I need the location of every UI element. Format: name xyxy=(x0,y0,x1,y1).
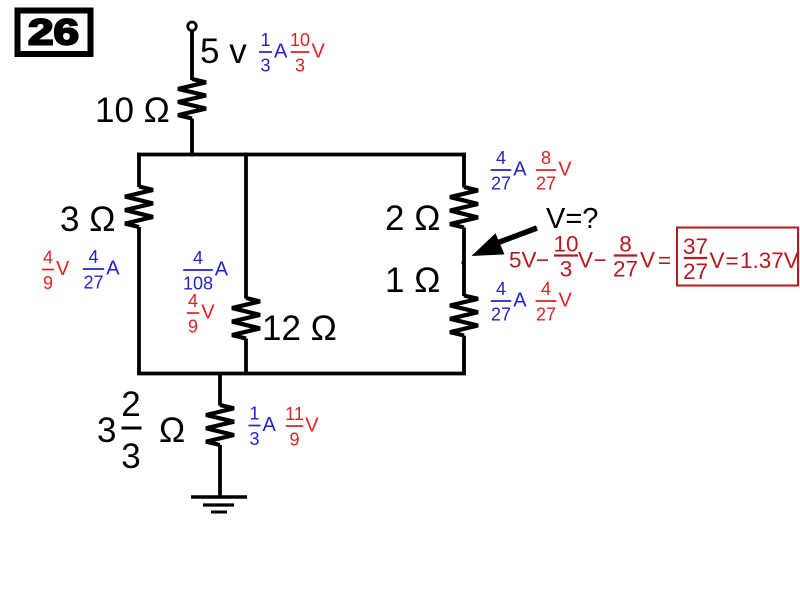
svg-text:Ω: Ω xyxy=(159,411,185,450)
svg-text:A: A xyxy=(513,290,527,312)
resistor 2 ohm xyxy=(450,187,478,228)
wire middle branch top xyxy=(244,153,248,299)
svg-text:A: A xyxy=(263,414,277,436)
svg-text:4: 4 xyxy=(188,291,198,311)
wire R to ground xyxy=(218,445,222,497)
wire right branch middle xyxy=(462,228,466,297)
resistor 12 ohm xyxy=(232,298,260,339)
svg-text:V=?: V=? xyxy=(546,203,598,235)
svg-text:10 Ω: 10 Ω xyxy=(95,91,170,130)
svg-text:2 Ω: 2 Ω xyxy=(385,199,440,238)
wire left branch top xyxy=(137,153,141,187)
svg-text:1: 1 xyxy=(260,30,270,50)
svg-text:4: 4 xyxy=(541,279,551,299)
svg-text:V: V xyxy=(559,290,573,312)
svg-text:A: A xyxy=(274,41,288,63)
svg-text:5V: 5V xyxy=(509,248,537,273)
annotation current 1/3 A (source) xyxy=(259,30,288,76)
svg-text:10: 10 xyxy=(290,30,310,50)
svg-text:4: 4 xyxy=(88,247,98,267)
annotation current 4/27 A (1 ohm) xyxy=(491,279,527,325)
annotation current 4/108 A (12 ohm) xyxy=(183,248,229,294)
wire bottom branch top xyxy=(218,373,222,406)
svg-text:=: = xyxy=(658,248,671,273)
terminal node (open circle) xyxy=(188,22,197,31)
annotation voltage 4/9 V (3 ohm) xyxy=(42,248,70,294)
wire right branch top xyxy=(462,153,466,188)
svg-text:V: V xyxy=(558,159,572,181)
resistor 10 ohm xyxy=(178,79,206,119)
svg-text:10: 10 xyxy=(553,232,578,257)
equation 5V - 10/3 V - 8/27 V = xyxy=(509,232,671,282)
svg-text:3: 3 xyxy=(260,56,270,76)
svg-text:V: V xyxy=(710,248,725,273)
arrow to node V xyxy=(472,228,538,256)
wire right branch bottom xyxy=(462,336,466,375)
wire middle branch bottom xyxy=(244,339,248,375)
svg-text:3: 3 xyxy=(97,411,116,450)
svg-text:V: V xyxy=(201,302,215,324)
svg-text:V: V xyxy=(56,258,70,280)
svg-text:1: 1 xyxy=(249,404,259,424)
wire terminal to R 10ohm xyxy=(190,31,194,80)
annotation voltage 11/9 V (3 2/3 ohm) xyxy=(285,404,319,450)
svg-text:3: 3 xyxy=(560,257,573,282)
svg-text:4: 4 xyxy=(496,148,506,168)
wire R10 to top bus xyxy=(190,119,194,157)
svg-text:−: − xyxy=(536,248,549,273)
svg-text:3: 3 xyxy=(121,437,140,476)
svg-text:3 Ω: 3 Ω xyxy=(60,200,115,239)
svg-text:A: A xyxy=(215,259,229,281)
svg-text:A: A xyxy=(513,159,527,181)
wire top bus xyxy=(137,153,466,157)
svg-text:27: 27 xyxy=(491,174,511,194)
svg-text:9: 9 xyxy=(289,430,299,450)
svg-text:8: 8 xyxy=(541,148,551,168)
wire left branch bottom xyxy=(137,227,141,375)
svg-text:V: V xyxy=(640,248,655,273)
svg-text:A: A xyxy=(106,258,120,280)
svg-text:1 Ω: 1 Ω xyxy=(385,261,440,300)
svg-text:27: 27 xyxy=(613,257,638,282)
svg-text:2: 2 xyxy=(121,385,140,424)
svg-text:12 Ω: 12 Ω xyxy=(262,309,337,348)
problem number box 26 xyxy=(18,11,91,55)
svg-text:1.37V: 1.37V xyxy=(740,248,799,273)
svg-text:3: 3 xyxy=(295,56,305,76)
svg-text:9: 9 xyxy=(188,317,198,337)
svg-text:9: 9 xyxy=(43,273,53,293)
svg-text:26: 26 xyxy=(28,12,79,53)
svg-text:27: 27 xyxy=(491,305,511,325)
svg-text:4: 4 xyxy=(193,248,203,268)
svg-text:=: = xyxy=(726,248,739,273)
node tick on wire xyxy=(462,261,467,264)
svg-text:27: 27 xyxy=(683,259,708,284)
annotation voltage 4/9 V (12 ohm) xyxy=(187,291,215,337)
svg-text:V: V xyxy=(312,41,326,63)
annotation current 1/3 A (3 2/3 ohm) xyxy=(249,404,277,450)
svg-text:V: V xyxy=(305,415,319,437)
annotation current 4/27 A (2 ohm) xyxy=(491,148,527,194)
boxed result 37/27 V = 1.37V xyxy=(677,228,799,286)
svg-text:V: V xyxy=(578,248,593,273)
resistor 3 2/3 ohm xyxy=(206,405,234,445)
svg-text:11: 11 xyxy=(285,404,304,424)
svg-text:8: 8 xyxy=(619,232,632,257)
ground xyxy=(191,497,247,512)
svg-text:4: 4 xyxy=(496,279,506,299)
svg-text:3: 3 xyxy=(249,429,259,449)
svg-text:4: 4 xyxy=(43,248,53,268)
wire bottom bus xyxy=(137,372,466,376)
svg-text:−: − xyxy=(594,248,607,273)
svg-text:5 v: 5 v xyxy=(200,32,247,71)
annotation voltage 4/27 V (1 ohm) xyxy=(536,279,573,325)
resistor 3 ohm xyxy=(125,187,153,228)
svg-text:27: 27 xyxy=(536,305,556,325)
svg-text:27: 27 xyxy=(536,174,556,194)
label 3 2/3 ohm xyxy=(97,385,185,476)
svg-text:27: 27 xyxy=(83,273,103,293)
annotation voltage 8/27 V (2 ohm) xyxy=(536,148,572,194)
resistor 1 ohm xyxy=(450,296,478,336)
svg-text:37: 37 xyxy=(683,234,708,259)
annotation current 4/27 A (3 ohm) xyxy=(83,247,120,293)
annotation voltage 10/3 V (source) xyxy=(290,30,326,76)
